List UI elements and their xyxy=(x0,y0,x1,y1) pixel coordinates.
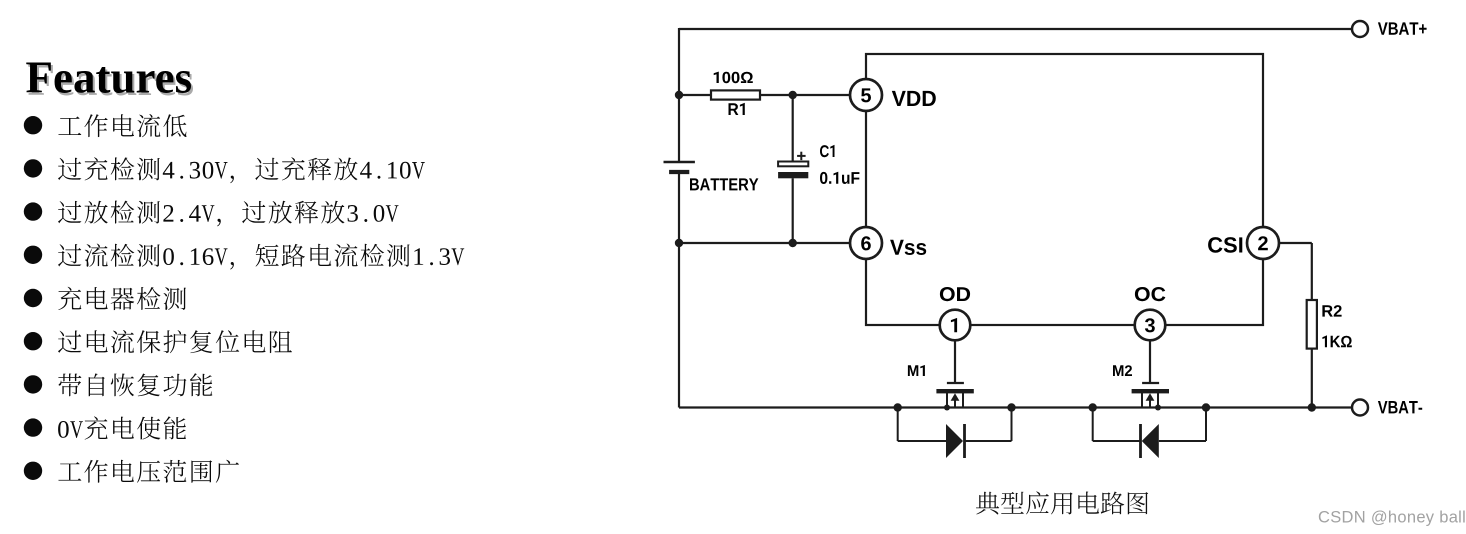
wire: R1 right lead to pin 5 xyxy=(760,94,850,96)
feature text 9: 工作电压范围广 xyxy=(58,460,239,483)
diode D1 (body diode of M1) xyxy=(894,403,902,411)
terminal VBAT+ xyxy=(1352,21,1368,37)
battery BATTERY xyxy=(664,161,695,164)
feature bullet 5 xyxy=(24,289,42,307)
pin 1 OD xyxy=(940,310,971,341)
node: R1/C1 junction xyxy=(789,91,797,99)
feature text 8: 0V充电使能 xyxy=(58,416,186,439)
feature text 4: 过流检测0.16V，短路电流检测1.3V xyxy=(58,244,464,270)
wire: C1 top lead xyxy=(792,95,794,162)
terminal VBAT- xyxy=(1352,400,1368,416)
pin 5 VDD xyxy=(850,79,882,111)
feature text 1: 工作电流低 xyxy=(58,114,186,137)
feature text 6: 过电流保护复位电阻 xyxy=(58,330,292,353)
resistor R1 100ohm xyxy=(711,90,760,99)
wire: pin 2 lead to R2 xyxy=(1278,242,1312,244)
svg-text:CSDN @honey ball: CSDN @honey ball xyxy=(1318,509,1466,527)
feature bullet 3 xyxy=(24,202,42,220)
feature text 5: 充电器检测 xyxy=(58,287,186,310)
transistor M2 nmos xyxy=(1113,365,1132,376)
feature text 7: 带自恢复功能 xyxy=(58,373,212,396)
node: battery/R1 junction xyxy=(675,91,683,99)
caption: typical application circuit xyxy=(976,491,1148,514)
wire: Vss rail from battery branch to pin 6 xyxy=(679,242,850,244)
wire: top rail from battery branch to VBAT+ xyxy=(679,28,1352,30)
pin 3 OC xyxy=(1135,310,1166,341)
node: battery/Vss junction xyxy=(675,239,683,247)
wire: C1 bottom lead to Vss rail xyxy=(792,178,794,243)
transistor M1 nmos xyxy=(908,365,925,376)
diode D2 (body diode of M2) xyxy=(1089,403,1097,411)
feature bullet 1 xyxy=(24,116,42,134)
feature bullet 6 xyxy=(24,332,42,350)
node: C1/Vss junction xyxy=(789,239,797,247)
svg-text:Features: Features xyxy=(26,53,193,103)
pin 6 Vss xyxy=(850,227,882,259)
wire: pin 1 gate lead to M1 xyxy=(954,340,956,383)
wire: left vertical battery + lead xyxy=(678,28,680,162)
pin 2 CSI xyxy=(1247,227,1279,259)
wire: battery - lead down to bottom rail xyxy=(678,172,680,408)
feature text 3: 过放检测2.4V，过放释放3.0V xyxy=(58,201,399,227)
feature bullet 7 xyxy=(24,375,42,393)
wire: pin 3 gate lead to M2 xyxy=(1149,340,1151,383)
feature bullet 8 xyxy=(24,418,42,436)
wire: R2 bottom lead to bottom rail xyxy=(1311,349,1313,408)
feature bullet 2 xyxy=(24,159,42,177)
wire: R1 left lead xyxy=(679,94,711,96)
wire: bottom rail VBAT- xyxy=(679,406,1352,408)
capacitor C1 0.1uF xyxy=(778,162,808,167)
feature bullet 4 xyxy=(24,246,42,264)
node: R2 / bottom rail junction xyxy=(1308,403,1316,411)
feature text 2: 过充检测4.30V，过充释放4.10V xyxy=(58,157,425,183)
IC box U1 xyxy=(866,54,1263,325)
resistor R2 1Kohm xyxy=(1307,300,1317,349)
feature bullet 9 xyxy=(24,462,42,480)
